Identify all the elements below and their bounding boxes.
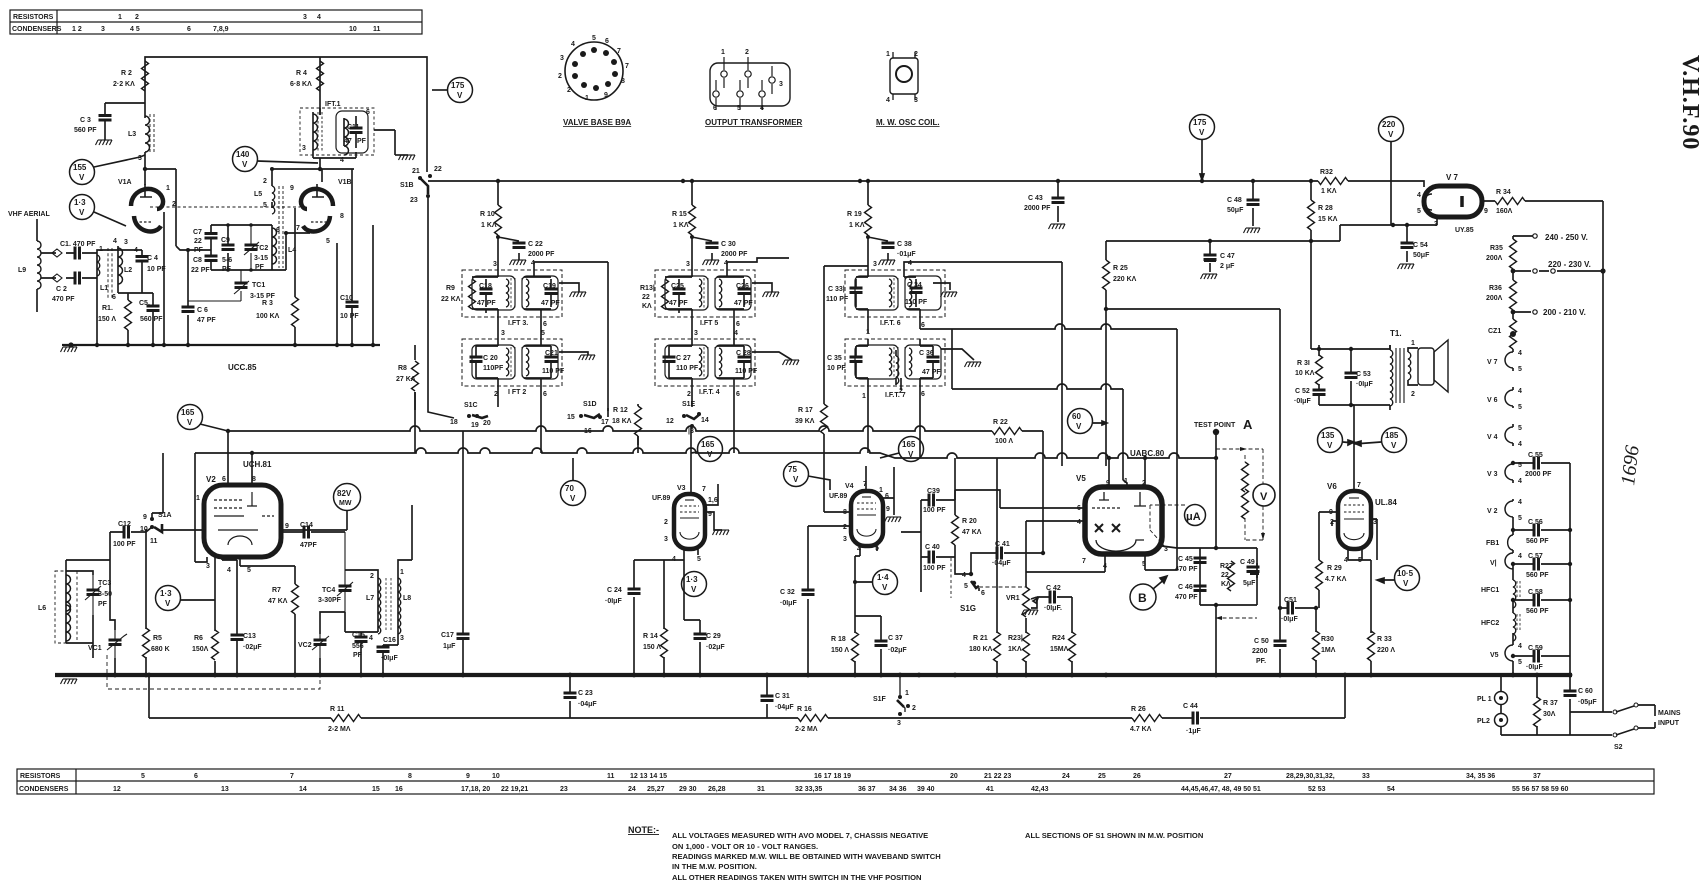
pilot lamp PL1: [1495, 692, 1508, 705]
svg-text:C 2: C 2: [56, 286, 67, 293]
svg-text:8: 8: [340, 213, 344, 220]
svg-text:100 PF: 100 PF: [113, 541, 136, 548]
svg-text:TC4: TC4: [322, 587, 335, 594]
capacitor C7: [210, 225, 212, 250]
svg-text:5: 5: [263, 202, 267, 209]
rail junction dots: [496, 179, 1313, 183]
svg-text:C 35: C 35: [827, 355, 842, 362]
resistor R19: [867, 181, 869, 264]
svg-text:3: 3: [206, 563, 210, 570]
dashed meter links: [1216, 449, 1263, 618]
svg-text:V: V: [707, 450, 713, 459]
svg-text:7: 7: [625, 63, 629, 70]
svg-text:5: 5: [1417, 208, 1421, 215]
capacitor C54: [1406, 225, 1408, 262]
resistor R13: [662, 279, 669, 309]
svg-text:2: 2: [745, 49, 749, 56]
svg-text:11: 11: [373, 26, 381, 33]
svg-text:NOTE:-: NOTE:-: [628, 825, 659, 835]
resistor R29: [1316, 560, 1323, 590]
svg-text:C 22: C 22: [528, 241, 543, 248]
svg-text:4: 4: [1417, 192, 1421, 199]
svg-text:RESISTORS: RESISTORS: [13, 14, 54, 21]
svg-text:·0IμF: ·0IμF: [1526, 664, 1543, 671]
wires L6/TC3: [66, 571, 93, 658]
svg-text:C 45: C 45: [1178, 556, 1193, 563]
ground bus UCC85: [62, 344, 380, 346]
trimmer TC4: [337, 532, 353, 612]
svg-text:39 KΛ: 39 KΛ: [795, 418, 815, 425]
svg-text:2: 2: [1411, 391, 1415, 398]
svg-text:C11: C11: [347, 124, 360, 131]
svg-text:C 47: C 47: [1220, 253, 1235, 260]
capacitor C57: [1513, 564, 1570, 569]
svg-text:C51: C51: [1284, 597, 1297, 604]
svg-text:V|: V|: [1490, 560, 1497, 567]
svg-text:1: 1: [886, 51, 890, 58]
capacitor C14: [281, 531, 345, 533]
svg-text:5: 5: [737, 105, 741, 112]
svg-text:V: V: [1199, 128, 1205, 137]
svg-text:KΛ: KΛ: [642, 303, 652, 310]
svg-text:1 KΛ: 1 KΛ: [481, 222, 497, 229]
svg-text:C 31: C 31: [775, 693, 790, 700]
capacitor C32: [807, 526, 809, 675]
coil L6 dashed box: [55, 571, 77, 643]
svg-text:7: 7: [1082, 558, 1086, 565]
svg-text:1: 1: [400, 569, 404, 576]
resistor R11: [331, 715, 361, 722]
svg-text:5: 5: [141, 773, 145, 780]
svg-text:9: 9: [290, 185, 294, 192]
capacitor C18: [485, 279, 487, 307]
svg-text:27: 27: [1224, 773, 1232, 780]
wire top rail R2-R4: [145, 57, 427, 172]
svg-text:4: 4: [1518, 350, 1522, 357]
wires tuner: [97, 248, 142, 345]
heater V6: [1505, 390, 1513, 406]
svg-text:150Λ: 150Λ: [192, 646, 209, 653]
grid dashed line V1A-V1B: [150, 206, 300, 208]
svg-text:R 33: R 33: [1377, 636, 1392, 643]
pentode V1B: [301, 189, 333, 232]
svg-text:21 22 23: 21 22 23: [984, 773, 1011, 780]
svg-text:42,43: 42,43: [1031, 786, 1049, 793]
capacitor C39: [921, 499, 955, 501]
resistor R36: [1512, 271, 1514, 280]
svg-text:5: 5: [964, 583, 968, 590]
svg-text:6: 6: [543, 321, 547, 328]
svg-text:OUTPUT TRANSFORMER: OUTPUT TRANSFORMER: [705, 118, 803, 127]
svg-text:C 50: C 50: [1254, 638, 1269, 645]
svg-text:4: 4: [317, 14, 321, 21]
resistor R25: [1105, 241, 1107, 309]
svg-text:50μF: 50μF: [1413, 252, 1430, 259]
svg-text:V 6: V 6: [1487, 397, 1498, 404]
pilot lamp PL2: [1495, 714, 1508, 727]
wire detector output column: [1176, 329, 1178, 548]
svg-text:HFC1: HFC1: [1481, 587, 1499, 594]
svg-text:R24: R24: [1052, 635, 1065, 642]
svg-text:C 34: C 34: [907, 282, 922, 289]
svg-text:I.F.T. 6: I.F.T. 6: [880, 320, 901, 327]
svg-text:FB1: FB1: [1486, 540, 1499, 547]
svg-text:R30: R30: [1321, 636, 1334, 643]
svg-text:L7: L7: [366, 595, 374, 602]
svg-text:6: 6: [713, 105, 717, 112]
svg-text:6: 6: [112, 294, 116, 301]
capacitor C19: [550, 279, 552, 307]
wire main HT rail: [428, 180, 1318, 182]
resistor R22: [992, 428, 1022, 435]
svg-text:TEST POINT: TEST POINT: [1194, 422, 1236, 429]
coil L3: [145, 116, 150, 152]
capacitor C55: [1513, 462, 1570, 464]
resistor R12: [637, 404, 639, 445]
choke HFC2: [1513, 613, 1516, 641]
svg-text:C 20: C 20: [483, 355, 498, 362]
svg-text:1μF: 1μF: [443, 643, 456, 650]
capacitor C45: [1194, 558, 1207, 563]
svg-text:47: 47: [344, 138, 352, 145]
svg-text:6: 6: [921, 322, 925, 329]
svg-text:39 40: 39 40: [917, 786, 935, 793]
svg-text:7,8,9: 7,8,9: [213, 26, 229, 33]
svg-text:HFC2: HFC2: [1481, 620, 1499, 627]
svg-text:6: 6: [885, 493, 889, 500]
cluster wires: [188, 225, 272, 270]
svg-text:47 PF: 47 PF: [477, 300, 496, 307]
svg-text:V: V: [165, 599, 171, 608]
svg-text:100 PF: 100 PF: [923, 507, 946, 514]
wire AVC rail y389: [952, 384, 1123, 389]
voltage 70V: [561, 481, 586, 506]
svg-text:22: 22: [642, 294, 650, 301]
svg-text:C 32: C 32: [780, 589, 795, 596]
svg-text:34 36: 34 36: [889, 786, 907, 793]
svg-text:C 23: C 23: [578, 690, 593, 697]
svg-text:11: 11: [607, 773, 615, 780]
svg-text:4: 4: [113, 238, 117, 245]
wire aerial taps: [41, 253, 97, 278]
svg-text:9: 9: [466, 773, 470, 780]
svg-text:V.H.F.90: V.H.F.90: [1677, 55, 1703, 150]
svg-text:47 PF: 47 PF: [922, 369, 941, 376]
svg-text:150 Λ: 150 Λ: [643, 644, 661, 651]
wire IFT2 pins: [476, 333, 551, 437]
svg-text:5: 5: [1518, 515, 1522, 522]
svg-text:110 PF: 110 PF: [542, 368, 565, 375]
svg-text:2-2 MΛ: 2-2 MΛ: [795, 726, 818, 733]
svg-text:5: 5: [1518, 366, 1522, 373]
svg-text:·02μF: ·02μF: [243, 644, 262, 651]
svg-text:10: 10: [492, 773, 500, 780]
wire V4 cathode: [855, 546, 881, 675]
svg-text:3: 3: [493, 261, 497, 268]
capacitor C1: [75, 247, 80, 260]
svg-text:V: V: [1388, 130, 1394, 139]
voltage 1.3V: [156, 586, 181, 611]
svg-text:PF: PF: [357, 138, 367, 145]
svg-text:C7: C7: [193, 229, 202, 236]
svg-text:4: 4: [1518, 499, 1522, 506]
wire rail A with hops: [228, 426, 992, 431]
capacitor C15: [360, 632, 362, 675]
svg-text:RESISTORS: RESISTORS: [20, 773, 61, 780]
voltage 82V MW: [334, 484, 361, 511]
svg-text:C 43: C 43: [1028, 195, 1043, 202]
svg-text:9: 9: [143, 514, 147, 521]
svg-text:14: 14: [701, 417, 709, 424]
svg-text:7: 7: [1357, 482, 1361, 489]
svg-text:9: 9: [886, 506, 890, 513]
svg-text:100 PF: 100 PF: [923, 565, 946, 572]
svg-text:560 PF: 560 PF: [1526, 572, 1549, 579]
svg-text:37: 37: [1533, 773, 1541, 780]
svg-text:C18: C18: [479, 283, 492, 290]
svg-text:556: 556: [352, 643, 364, 650]
svg-text:R 17: R 17: [798, 407, 813, 414]
heater V3: [1505, 464, 1513, 480]
svg-text:3: 3: [400, 635, 404, 642]
capacitor C8: [210, 250, 212, 270]
svg-text:·02μF: ·02μF: [706, 644, 725, 651]
capacitor C31: [766, 675, 768, 718]
svg-text:2: 2: [558, 73, 562, 80]
svg-text:C16: C16: [383, 637, 396, 644]
svg-text:25: 25: [1098, 773, 1106, 780]
ground under C3: [96, 140, 113, 145]
svg-text:6: 6: [736, 321, 740, 328]
coil L9 (aerial lead): [36, 219, 38, 312]
svg-text:R8: R8: [398, 365, 407, 372]
svg-text:A: A: [1243, 417, 1253, 432]
svg-text:R13|: R13|: [640, 285, 655, 292]
svg-text:·05μF: ·05μF: [1578, 699, 1597, 706]
svg-text:·02μF: ·02μF: [888, 647, 907, 654]
wire IFT6 pins: [856, 264, 920, 333]
wire V5 bottom leads: [1026, 546, 1177, 572]
svg-text:C 46: C 46: [1178, 584, 1193, 591]
svg-text:1 KΛ: 1 KΛ: [1321, 188, 1337, 195]
svg-text:2·2 KΛ: 2·2 KΛ: [113, 81, 135, 88]
svg-text:1 KΛ: 1 KΛ: [673, 222, 689, 229]
svg-text:S1D: S1D: [583, 401, 597, 408]
capacitor C13: [215, 557, 237, 675]
svg-text:110 PF: 110 PF: [826, 296, 849, 303]
svg-text:V: V: [242, 160, 248, 169]
svg-text:47 KΛ: 47 KΛ: [268, 598, 288, 605]
svg-text:470 PF: 470 PF: [1175, 566, 1198, 573]
svg-text:4: 4: [369, 635, 373, 642]
capacitor C60: [1569, 675, 1571, 735]
svg-text:22 PF: 22 PF: [191, 267, 210, 274]
svg-text:R 16: R 16: [797, 706, 812, 713]
coils L7 L8: [378, 576, 398, 632]
svg-text:R 3: R 3: [262, 300, 273, 307]
wire IFT5 pins: [665, 264, 744, 339]
heater V4: [1505, 427, 1513, 443]
svg-text:4.7 KΛ: 4.7 KΛ: [1325, 576, 1347, 583]
svg-text:16 17 18 19: 16 17 18 19: [814, 773, 851, 780]
svg-text:2: 2: [567, 87, 571, 94]
svg-text:V5: V5: [1076, 474, 1086, 483]
trimmer TC2: [244, 225, 259, 270]
svg-text:22: 22: [194, 238, 202, 245]
svg-text:V3: V3: [677, 485, 686, 492]
svg-text:220 KΛ: 220 KΛ: [1113, 276, 1137, 283]
svg-text:3: 3: [303, 14, 307, 21]
svg-text:R5: R5: [153, 635, 162, 642]
svg-text:S1E: S1E: [682, 401, 696, 408]
svg-text:UF.89: UF.89: [652, 495, 670, 502]
svg-text:2: 2: [687, 391, 691, 398]
svg-text:VHF AERIAL: VHF AERIAL: [8, 211, 50, 218]
svg-text:C12: C12: [118, 521, 131, 528]
ground right of IFT1: [395, 154, 408, 156]
svg-text:17,18, 20: 17,18, 20: [461, 786, 490, 793]
svg-text:5: 5: [1518, 425, 1522, 432]
svg-text:8: 8: [621, 78, 625, 85]
svg-text:R1.: R1.: [102, 305, 113, 312]
svg-text:R 12: R 12: [613, 407, 628, 414]
wire L3 to V1A: [144, 152, 146, 185]
wire IFT6 pin4 top feed: [904, 262, 1062, 466]
svg-text:R 21: R 21: [973, 635, 988, 642]
svg-text:200 - 210 V.: 200 - 210 V.: [1543, 308, 1586, 317]
svg-text:9: 9: [285, 523, 289, 530]
capacitor C17: [462, 431, 464, 675]
svg-text:150 Λ: 150 Λ: [98, 316, 116, 323]
capacitor C50: [1279, 309, 1281, 675]
svg-text:1·3: 1·3: [74, 198, 86, 207]
wire IFT1 to circuit: [313, 108, 395, 169]
wire IF screen rail y329: [920, 324, 1177, 389]
IFT7 tickler coil: [896, 356, 899, 384]
svg-text:28,29,30,31,32,: 28,29,30,31,32,: [1286, 773, 1335, 780]
resistor R31: [1318, 349, 1320, 389]
svg-text:V4: V4: [845, 483, 854, 490]
svg-text:9: 9: [604, 92, 608, 99]
svg-text:C 6: C 6: [197, 307, 208, 314]
svg-text:·01μF: ·01μF: [897, 251, 916, 258]
svg-text:C 28: C 28: [736, 350, 751, 357]
svg-text:·04μF: ·04μF: [578, 701, 597, 708]
svg-text:R 29: R 29: [1327, 565, 1342, 572]
wire IFT3 pin4 top feed: [534, 262, 608, 411]
svg-text:19: 19: [471, 422, 479, 429]
wire V2 cathode leads: [195, 557, 295, 566]
svg-text:2-2 MΛ: 2-2 MΛ: [328, 726, 351, 733]
capacitor C33: [855, 279, 857, 307]
svg-text:5: 5: [1518, 659, 1522, 666]
ground tap right of IFT4: [752, 352, 792, 360]
svg-text:V1B: V1B: [338, 179, 352, 186]
capacitor C47: [1209, 241, 1211, 272]
resistor R3: [292, 297, 299, 327]
svg-text:S1F: S1F: [873, 696, 887, 703]
svg-text:21: 21: [412, 168, 420, 175]
svg-text:V: V: [1403, 579, 1409, 588]
svg-text:55 56 57 58 59 60: 55 56 57 58 59 60: [1512, 786, 1569, 793]
capacitor C5: [142, 293, 153, 345]
svg-text:R 37: R 37: [1543, 700, 1558, 707]
wire mains HT vertical: [1602, 201, 1604, 712]
mains tap 220-230: [1513, 269, 1603, 271]
svg-text:C 58: C 58: [1528, 589, 1543, 596]
svg-text:V2: V2: [206, 475, 216, 484]
svg-text:UABC.80: UABC.80: [1130, 449, 1165, 458]
svg-text:C 27: C 27: [676, 355, 691, 362]
svg-text:82V: 82V: [337, 489, 352, 498]
svg-text:47 PF: 47 PF: [734, 300, 753, 307]
svg-text:50μF: 50μF: [1227, 207, 1244, 214]
svg-text:110PF: 110PF: [483, 365, 504, 372]
svg-text:175: 175: [451, 81, 465, 90]
voltage 135V: [1318, 428, 1343, 453]
test point A: [1213, 429, 1219, 435]
svg-text:200Λ: 200Λ: [1486, 255, 1503, 262]
svg-text:C 3: C 3: [80, 117, 91, 124]
svg-text:4: 4: [886, 97, 890, 104]
svg-text:165: 165: [701, 440, 715, 449]
svg-text:7: 7: [296, 225, 300, 232]
svg-text:R35: R35: [1490, 245, 1503, 252]
svg-text:2: 2: [914, 51, 918, 58]
svg-text:30Λ: 30Λ: [1543, 711, 1556, 718]
svg-text:1: 1: [585, 95, 589, 102]
svg-text:33: 33: [1362, 773, 1370, 780]
svg-text:24: 24: [1062, 773, 1070, 780]
svg-text:6: 6: [605, 38, 609, 45]
svg-text:V: V: [570, 494, 576, 503]
svg-text:V: V: [1076, 422, 1082, 431]
svg-text:TC2: TC2: [255, 245, 268, 252]
mains tap 200-210: [1513, 310, 1531, 312]
svg-text:·0IμF.: ·0IμF.: [1044, 605, 1062, 612]
svg-text:PF: PF: [98, 601, 108, 608]
svg-text:5: 5: [326, 238, 330, 245]
svg-text:I.FT 3.: I.FT 3.: [508, 320, 528, 327]
svg-text:2000 PF: 2000 PF: [721, 251, 748, 258]
wire IFT6 pin3 left leg to R17: [824, 266, 868, 512]
resistor R17: [821, 404, 828, 434]
capacitor C44: [1193, 712, 1198, 725]
svg-text:6: 6: [736, 391, 740, 398]
svg-text:V5: V5: [1490, 652, 1499, 659]
svg-text:1·4: 1·4: [877, 573, 889, 582]
svg-text:60: 60: [1072, 412, 1081, 421]
svg-text:47 PF: 47 PF: [669, 300, 688, 307]
svg-text:5-6: 5-6: [222, 257, 232, 264]
resistor R23: [1023, 632, 1030, 662]
svg-text:11: 11: [150, 538, 158, 545]
capacitor C49: [1256, 563, 1258, 578]
svg-text:PF: PF: [353, 652, 363, 659]
svg-text:V: V: [79, 173, 85, 182]
svg-text:25,27: 25,27: [647, 786, 665, 793]
svg-text:IFT.1: IFT.1: [325, 101, 341, 108]
svg-text:·04μF: ·04μF: [775, 704, 794, 711]
svg-text:7: 7: [290, 773, 294, 780]
svg-text:3: 3: [779, 81, 783, 88]
wire HT rail 2: [1106, 218, 1437, 241]
IFT6 transformer: [845, 270, 945, 317]
svg-text:3: 3: [914, 97, 918, 104]
svg-text:10 PF: 10 PF: [827, 365, 846, 372]
svg-text:560 PF: 560 PF: [74, 127, 97, 134]
svg-text:26,28: 26,28: [708, 786, 726, 793]
